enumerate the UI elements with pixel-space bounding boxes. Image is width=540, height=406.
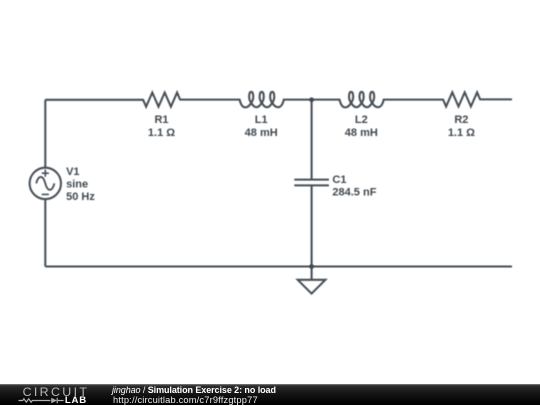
svg-text:R1: R1 xyxy=(154,114,168,126)
svg-text:1.1 Ω: 1.1 Ω xyxy=(148,127,175,139)
svg-text:50 Hz: 50 Hz xyxy=(66,191,95,203)
svg-text:R2: R2 xyxy=(454,114,468,126)
svg-text:48 mH: 48 mH xyxy=(245,127,278,139)
svg-text:sine: sine xyxy=(66,179,88,191)
svg-text:48 mH: 48 mH xyxy=(345,127,378,139)
svg-text:284.5 nF: 284.5 nF xyxy=(332,186,376,198)
svg-text:V1: V1 xyxy=(66,166,79,178)
svg-text:L2: L2 xyxy=(355,114,368,126)
svg-text:L1: L1 xyxy=(255,114,268,126)
svg-text:1.1 Ω: 1.1 Ω xyxy=(448,127,475,139)
svg-text:C1: C1 xyxy=(332,174,346,186)
